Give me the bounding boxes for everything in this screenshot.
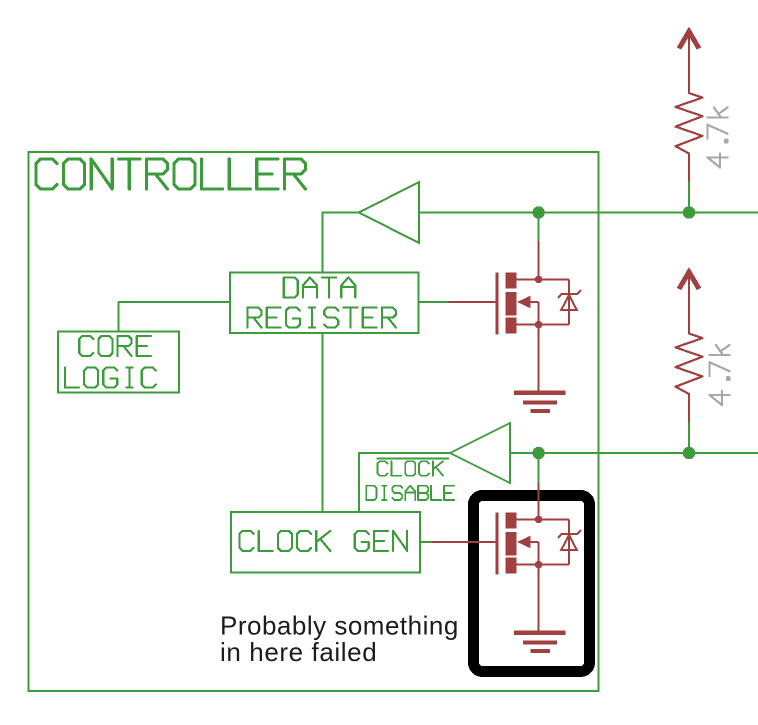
overline (active low) [377,457,450,459]
junction node row1/drain1 [532,206,544,218]
wire drain of Q2 (red, crosses highlight) [538,483,540,519]
transistor Q1 [495,272,542,334]
label CORE LOGIC [79,336,151,356]
wire DATA REGISTER output (green stub) [419,301,449,303]
wire CLOCK GEN output (green stub) [420,541,432,543]
controller block outline [29,152,599,691]
wire buffer U4 output to right rail [419,212,758,214]
wire drain tap row1 (green) [538,213,540,242]
box DATA REGISTER [230,273,419,333]
resistor R1 [676,32,703,182]
buffer U5 [450,423,510,483]
zener diode D2 (body diode) [539,519,581,564]
wire buffer U5 input to CLOCK GEN [359,453,450,512]
ground [514,565,566,651]
transistor Q2 [495,512,542,574]
label CONTROLLER [36,159,305,189]
label 4.7k (R1 value) [708,108,728,168]
wire drain tap row2 (green) [538,453,540,483]
box CORE LOGIC [58,331,179,392]
wire DATA REGISTER to CORE LOGIC [119,302,230,331]
wire resistor bottom (green stub) [688,181,690,212]
wire buffer U5 output to right rail [510,452,758,454]
power VCC arrow (R2 top) [679,272,699,289]
svg-text:in here failed: in here failed [220,637,377,667]
label 4.7k (R2 value) [710,345,730,405]
resistor R2 [676,272,703,422]
label CLOCK DISABLE [378,461,443,475]
highlight box (failure region) [474,496,590,672]
zener diode D1 (body diode) [539,279,581,324]
wire resistor bottom (green stub) [688,422,690,453]
junction node row2/R2 [683,447,695,459]
junction node row2/drain2 [532,447,544,459]
wire drain of Q1 (red) [538,241,540,279]
wire gate of Q2 (red, crosses highlight) [432,541,495,543]
ground [514,325,566,411]
wire DATA REGISTER to CLOCK GEN [322,333,324,512]
label DATA REGISTER [284,277,356,297]
svg-text:Probably something: Probably something [220,611,459,641]
wire gate of Q1 [449,301,496,303]
junction node row1/R1 [683,206,695,218]
power VCC arrow (R1 top) [679,32,699,49]
box CLOCK GEN [231,512,420,573]
buffer U4 [359,182,419,243]
label CLOCK GEN [240,531,408,551]
wire buffer U4 input to DATA REGISTER [323,213,359,273]
